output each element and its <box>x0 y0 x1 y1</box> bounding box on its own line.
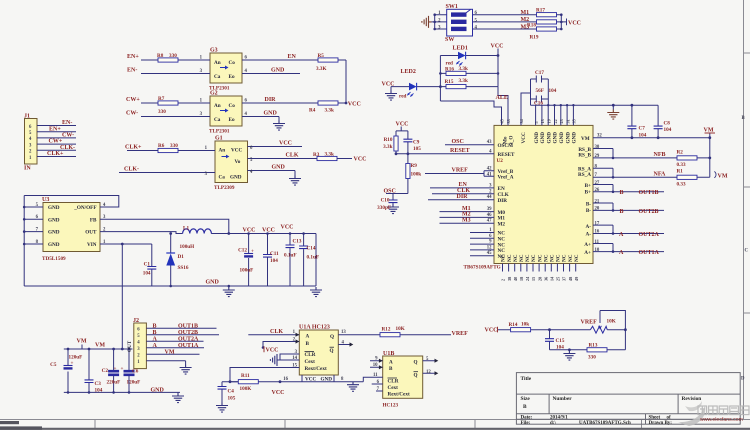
svg-text:R14: R14 <box>509 322 518 328</box>
svg-text:U1B: U1B <box>383 351 394 357</box>
svg-text:RS_B: RS_B <box>578 152 591 158</box>
svg-text:A: A <box>153 336 158 342</box>
svg-text:TLP2309: TLP2309 <box>214 185 235 191</box>
svg-text:GND: GND <box>321 377 333 383</box>
svg-text:M3: M3 <box>462 217 471 223</box>
svg-text:B: B <box>306 341 310 347</box>
svg-text:GND: GND <box>565 132 571 144</box>
svg-text:Ca: Ca <box>214 117 221 123</box>
svg-text:GND: GND <box>540 132 546 144</box>
svg-text:DIR: DIR <box>498 198 508 204</box>
svg-text:20: 20 <box>595 207 600 212</box>
svg-text:A+: A+ <box>584 242 591 248</box>
svg-text:12: 12 <box>426 370 431 375</box>
svg-text:An: An <box>214 60 221 66</box>
svg-text:17: 17 <box>595 221 600 226</box>
svg-text:C7: C7 <box>639 126 646 132</box>
svg-text:OUT2A: OUT2A <box>178 336 199 342</box>
svg-text:R1: R1 <box>677 169 684 175</box>
svg-text:45: 45 <box>499 119 504 123</box>
svg-text:Size: Size <box>521 396 531 402</box>
svg-text:EN-: EN- <box>62 120 72 126</box>
svg-text:330pF: 330pF <box>377 205 391 211</box>
svg-text:B-: B- <box>586 208 591 214</box>
svg-text:C12: C12 <box>238 248 247 254</box>
svg-text:OUT2A: OUT2A <box>639 232 660 238</box>
svg-text:Eo: Eo <box>229 117 235 123</box>
svg-text:C16: C16 <box>534 101 543 107</box>
svg-text:Date:: Date: <box>521 416 533 421</box>
svg-text:VCC: VCC <box>305 377 316 383</box>
svg-text:FB: FB <box>90 217 97 223</box>
svg-text:10K: 10K <box>396 326 405 332</box>
svg-text:10K: 10K <box>607 319 616 325</box>
svg-text:R8: R8 <box>157 53 164 59</box>
svg-text:VCC: VCC <box>485 328 498 334</box>
svg-text:VCC: VCC <box>279 141 292 147</box>
svg-text:35: 35 <box>572 119 577 123</box>
svg-text:29: 29 <box>595 154 600 159</box>
svg-text:Q: Q <box>414 373 418 379</box>
svg-text:VREF: VREF <box>581 320 598 326</box>
svg-text:2014/9/1: 2014/9/1 <box>550 416 568 421</box>
svg-text:VCC: VCC <box>568 21 581 27</box>
svg-text:23: 23 <box>559 119 564 123</box>
svg-text:Revision: Revision <box>682 396 702 402</box>
svg-text:NC: NC <box>525 254 531 262</box>
svg-text:3.3k: 3.3k <box>459 78 468 84</box>
svg-text:VREF: VREF <box>452 331 469 337</box>
svg-text:B+: B+ <box>585 190 591 196</box>
svg-text:B: B <box>620 209 624 215</box>
svg-text:220uF: 220uF <box>107 380 121 386</box>
svg-text:CW+: CW+ <box>49 139 63 145</box>
svg-text:OUT1A: OUT1A <box>639 250 660 256</box>
svg-text:D: D <box>741 377 745 382</box>
svg-text:U2: U2 <box>497 158 504 164</box>
svg-text:NC: NC <box>543 254 549 262</box>
svg-text:GND: GND <box>230 175 242 181</box>
svg-text:A-: A- <box>586 224 592 230</box>
svg-text:Ca: Ca <box>214 74 221 80</box>
svg-text:CLK+: CLK+ <box>125 145 142 151</box>
svg-text:C5: C5 <box>50 362 57 368</box>
svg-text:_ON/OFF: _ON/OFF <box>73 205 96 211</box>
svg-text:A+: A+ <box>584 250 591 256</box>
svg-text:Sheet: Sheet <box>649 416 661 421</box>
svg-text:M2: M2 <box>498 221 506 227</box>
svg-text:Vref_A: Vref_A <box>498 175 514 181</box>
svg-text:Co: Co <box>229 60 236 66</box>
svg-text:330: 330 <box>588 355 596 361</box>
svg-text:VM: VM <box>77 339 87 345</box>
svg-text:45: 45 <box>487 251 492 256</box>
svg-text:28: 28 <box>537 277 542 281</box>
svg-text:10: 10 <box>373 363 378 368</box>
svg-text:EN: EN <box>288 54 297 60</box>
svg-text:3.3k: 3.3k <box>459 66 468 72</box>
svg-text:Rext/Cext: Rext/Cext <box>388 392 410 398</box>
svg-text:A: A <box>153 343 158 349</box>
svg-text:EN+: EN+ <box>127 54 139 60</box>
svg-text:VCC: VCC <box>281 225 294 231</box>
svg-text:NC: NC <box>531 254 537 262</box>
svg-text:t_O: t_O <box>509 136 515 144</box>
svg-text:NC: NC <box>568 254 574 262</box>
svg-text:104: 104 <box>143 271 151 277</box>
svg-text:27: 27 <box>595 181 600 186</box>
svg-text:R18: R18 <box>527 23 536 29</box>
svg-text:D1: D1 <box>178 254 185 260</box>
svg-text:16: 16 <box>283 377 288 382</box>
svg-text:R11: R11 <box>241 373 250 379</box>
svg-text:NC: NC <box>519 254 525 262</box>
svg-text:EN+: EN+ <box>49 126 61 132</box>
svg-text:CW-: CW- <box>126 111 138 117</box>
svg-text:6: 6 <box>475 11 478 16</box>
svg-text:of: of <box>667 416 672 421</box>
svg-text:C4: C4 <box>228 389 235 395</box>
svg-text:www.elecfans.com: www.elecfans.com <box>700 417 743 423</box>
svg-text:32: 32 <box>597 133 602 138</box>
svg-text:L1: L1 <box>183 226 189 232</box>
svg-text:J1: J1 <box>24 114 30 120</box>
svg-text:A: A <box>619 250 624 256</box>
svg-text:VM: VM <box>165 349 175 355</box>
svg-text:CLK: CLK <box>270 329 283 335</box>
svg-text:R17: R17 <box>536 7 545 13</box>
svg-text:GND: GND <box>48 230 60 236</box>
svg-text:NC: NC <box>507 254 513 262</box>
svg-text:16: 16 <box>595 230 600 235</box>
svg-text:G3: G3 <box>210 48 218 54</box>
svg-text:CW+: CW+ <box>126 97 140 103</box>
svg-text:GND: GND <box>559 132 565 144</box>
svg-text:36: 36 <box>543 277 548 281</box>
svg-text:NC: NC <box>574 254 580 262</box>
svg-text:CLK-: CLK- <box>60 145 75 151</box>
svg-text:105: 105 <box>228 396 236 402</box>
svg-text:GND: GND <box>264 111 278 117</box>
svg-text:Ca: Ca <box>219 175 226 181</box>
svg-text:OSC: OSC <box>384 188 396 194</box>
svg-text:C17: C17 <box>535 70 544 76</box>
svg-text:Co: Co <box>229 103 236 109</box>
svg-text:3.3k: 3.3k <box>325 108 334 114</box>
svg-text:11: 11 <box>595 240 600 245</box>
svg-text:B: B <box>523 404 527 410</box>
svg-text:SS16: SS16 <box>178 265 189 271</box>
svg-text:330: 330 <box>158 109 166 115</box>
svg-text:2: 2 <box>438 18 441 23</box>
svg-text:41: 41 <box>487 173 492 178</box>
svg-text:104: 104 <box>664 127 672 133</box>
svg-text:13: 13 <box>341 330 346 335</box>
svg-text:R10: R10 <box>384 137 393 143</box>
svg-text:An: An <box>214 103 221 109</box>
svg-text:R13: R13 <box>589 343 598 349</box>
svg-text:VCC: VCC <box>354 157 367 163</box>
svg-text:13: 13 <box>540 119 545 123</box>
svg-text:VIN: VIN <box>87 242 97 248</box>
svg-text:C9: C9 <box>413 140 420 146</box>
svg-text:OSC: OSC <box>452 139 464 145</box>
svg-text:R2: R2 <box>677 149 684 155</box>
svg-text:49: 49 <box>574 277 579 281</box>
svg-text:C13: C13 <box>293 239 302 245</box>
svg-text:C6: C6 <box>132 369 139 375</box>
svg-text:GND: GND <box>546 132 552 144</box>
svg-text:NC: NC <box>556 254 562 262</box>
svg-text:VCC: VCC <box>348 101 361 107</box>
svg-text:5: 5 <box>475 18 478 23</box>
svg-text:8: 8 <box>341 377 344 382</box>
svg-text:R16: R16 <box>445 66 454 72</box>
svg-text:3.3k: 3.3k <box>325 152 334 158</box>
svg-text:A: A <box>306 334 310 340</box>
svg-text:C14: C14 <box>307 246 316 252</box>
svg-text:EN-: EN- <box>127 68 137 74</box>
svg-text:104: 104 <box>639 133 647 139</box>
svg-text:104: 104 <box>95 388 103 394</box>
svg-text:3: 3 <box>438 26 441 31</box>
svg-text:GND: GND <box>271 68 285 74</box>
svg-text:44: 44 <box>487 195 492 200</box>
svg-text:5: 5 <box>534 121 539 123</box>
svg-text:Q: Q <box>330 334 334 340</box>
svg-text:d:\: d:\ <box>550 421 556 426</box>
svg-text:Q: Q <box>330 348 334 354</box>
svg-text:VM: VM <box>95 343 105 349</box>
svg-text:R9: R9 <box>411 163 418 169</box>
svg-text:NC: NC <box>537 254 543 262</box>
svg-text:Vo: Vo <box>235 159 241 165</box>
svg-text:10: 10 <box>595 248 600 253</box>
svg-text:R7: R7 <box>158 96 165 102</box>
svg-text:C: C <box>745 249 749 254</box>
svg-text:47: 47 <box>487 219 492 224</box>
svg-text:GND: GND <box>206 280 220 286</box>
svg-text:RS_A: RS_A <box>578 172 591 178</box>
svg-text:C3: C3 <box>95 381 102 387</box>
svg-text:Cext: Cext <box>388 385 399 391</box>
svg-text:104: 104 <box>549 88 557 94</box>
svg-text:red: red <box>399 94 407 100</box>
svg-text:OUT: OUT <box>85 230 97 236</box>
svg-text:Rext/Cext: Rext/Cext <box>305 366 327 372</box>
svg-text:CLK-: CLK- <box>124 167 139 173</box>
svg-text:Drawn By:: Drawn By: <box>649 421 673 426</box>
svg-text:Number: Number <box>553 396 573 402</box>
svg-text:TD5L1509: TD5L1509 <box>42 256 66 262</box>
svg-text:VCC: VCC <box>266 348 279 354</box>
svg-text:CW-: CW- <box>62 133 74 139</box>
svg-text:+: + <box>114 366 117 372</box>
svg-text:CLK+: CLK+ <box>47 151 64 157</box>
svg-text:C2: C2 <box>102 368 109 374</box>
svg-text:1: 1 <box>438 11 441 16</box>
svg-text:DIR: DIR <box>265 97 277 103</box>
svg-text:VM: VM <box>581 136 590 142</box>
svg-text:R12: R12 <box>382 326 391 332</box>
svg-text:VM: VM <box>718 174 728 180</box>
svg-text:U1A HC123: U1A HC123 <box>299 325 330 331</box>
svg-text:TB67S109AFTG: TB67S109AFTG <box>464 264 501 270</box>
svg-text:RESET: RESET <box>450 148 470 154</box>
svg-text:104: 104 <box>556 345 564 351</box>
svg-text:330: 330 <box>170 143 178 149</box>
svg-text:VCC: VCC <box>396 121 409 127</box>
svg-text:2: 2 <box>501 279 506 281</box>
svg-text:R19: R19 <box>530 35 539 41</box>
svg-text:R4: R4 <box>309 108 316 114</box>
svg-text:R6: R6 <box>158 143 165 149</box>
svg-text:GND: GND <box>553 132 559 144</box>
svg-text:Title: Title <box>521 376 532 382</box>
svg-text:43: 43 <box>487 140 492 145</box>
svg-text:B: B <box>153 323 157 329</box>
svg-text:0.33: 0.33 <box>677 181 686 187</box>
svg-text:UATB67S109AFTG.Sch: UATB67S109AFTG.Sch <box>579 421 631 426</box>
svg-text:OUT1B: OUT1B <box>178 323 198 329</box>
svg-text:38: 38 <box>507 277 512 281</box>
svg-text:SW1: SW1 <box>446 4 458 10</box>
svg-text:GND: GND <box>572 132 578 144</box>
svg-text:26: 26 <box>595 188 600 193</box>
svg-text:Cext: Cext <box>305 359 316 365</box>
svg-text:C1: C1 <box>144 262 151 268</box>
svg-text:19: 19 <box>547 119 552 123</box>
svg-text:M1: M1 <box>521 10 530 16</box>
svg-text:NFA: NFA <box>654 172 667 178</box>
svg-text:SW: SW <box>445 37 454 43</box>
svg-text:+: + <box>121 366 124 372</box>
svg-text:B: B <box>742 116 746 121</box>
svg-text:DIR: DIR <box>457 194 469 200</box>
svg-text:105: 105 <box>413 146 421 152</box>
svg-text:100K: 100K <box>240 386 252 392</box>
svg-text:12: 12 <box>487 245 492 250</box>
svg-text:GND: GND <box>534 132 540 144</box>
svg-text:GND: GND <box>48 217 60 223</box>
svg-text:15: 15 <box>292 364 297 369</box>
svg-text:B: B <box>153 330 157 336</box>
svg-text:OUT2B: OUT2B <box>639 209 659 215</box>
svg-text:VCC: VCC <box>243 228 256 234</box>
svg-text:B+: B+ <box>585 183 591 189</box>
svg-text:GND: GND <box>48 205 60 211</box>
svg-text:HC123: HC123 <box>383 403 399 409</box>
svg-text:14: 14 <box>550 276 555 281</box>
svg-text:120uF: 120uF <box>127 380 141 386</box>
svg-text:B: B <box>620 190 624 196</box>
svg-text:VCC: VCC <box>272 390 285 396</box>
svg-text:3.3K: 3.3K <box>316 66 327 72</box>
svg-text:B: B <box>389 366 393 372</box>
svg-text:NFB: NFB <box>654 152 666 158</box>
svg-text:0.1uF: 0.1uF <box>284 253 297 259</box>
svg-text:OUT1A: OUT1A <box>178 343 199 349</box>
svg-text:NC: NC <box>550 254 556 262</box>
svg-text:3.3k: 3.3k <box>383 144 392 150</box>
svg-text:A-: A- <box>586 232 592 238</box>
svg-text:33: 33 <box>506 119 511 123</box>
svg-text:40: 40 <box>513 277 518 281</box>
svg-text:VCC: VCC <box>262 228 275 234</box>
svg-text:R5: R5 <box>318 53 325 59</box>
svg-text:100k: 100k <box>411 172 422 178</box>
svg-text:15: 15 <box>531 277 536 281</box>
svg-text:31: 31 <box>565 119 570 123</box>
svg-text:0.33: 0.33 <box>677 162 686 168</box>
svg-text:File:: File: <box>521 421 531 426</box>
svg-text:30: 30 <box>595 145 600 150</box>
svg-text:OUT: OUT <box>127 340 133 352</box>
svg-text:Q: Q <box>414 360 418 366</box>
svg-text:GND: GND <box>48 242 60 248</box>
svg-text:G2: G2 <box>210 91 218 97</box>
svg-text:CLR: CLR <box>305 352 316 358</box>
svg-text:NC: NC <box>513 254 519 262</box>
svg-text:Eo: Eo <box>229 74 235 80</box>
svg-text:LED2: LED2 <box>401 69 416 75</box>
svg-text:0.1uF: 0.1uF <box>307 255 320 261</box>
svg-text:42: 42 <box>487 167 492 172</box>
svg-text:B-: B- <box>586 202 591 208</box>
svg-text:10k: 10k <box>521 322 529 328</box>
svg-text:A: A <box>619 232 624 238</box>
svg-text:NC: NC <box>562 254 568 262</box>
svg-text:R15: R15 <box>445 79 454 85</box>
svg-text:OUT1B: OUT1B <box>639 190 659 196</box>
svg-text:C8: C8 <box>664 121 671 127</box>
svg-text:R3: R3 <box>313 152 320 158</box>
svg-text:VCC: VCC <box>491 44 504 50</box>
svg-text:24: 24 <box>525 276 530 281</box>
svg-text:An: An <box>219 148 226 154</box>
svg-text:22: 22 <box>553 119 558 123</box>
svg-text:104: 104 <box>270 258 278 264</box>
svg-text:37: 37 <box>562 277 567 281</box>
svg-text:TLP2301: TLP2301 <box>209 129 230 135</box>
svg-text:C11: C11 <box>270 251 279 257</box>
svg-text:VREF: VREF <box>452 168 469 174</box>
svg-text:VCC: VCC <box>521 132 527 143</box>
svg-text:IN: IN <box>24 166 31 172</box>
svg-text:G1: G1 <box>215 136 223 142</box>
svg-text:U3: U3 <box>42 197 49 203</box>
svg-text:100uF: 100uF <box>240 268 254 274</box>
svg-text:56F: 56F <box>536 88 544 94</box>
svg-text:CLR: CLR <box>388 379 399 385</box>
svg-text:+: + <box>71 361 74 367</box>
svg-text:CLK: CLK <box>286 153 299 159</box>
svg-text:100uH: 100uH <box>180 244 195 250</box>
svg-text:48: 48 <box>568 277 573 281</box>
svg-text:GND: GND <box>272 165 286 171</box>
svg-text:VCC: VCC <box>231 148 242 154</box>
svg-text:+: + <box>251 249 254 255</box>
svg-text:GND: GND <box>151 387 165 393</box>
svg-text:ALE: ALE <box>496 95 508 101</box>
svg-text:18: 18 <box>519 277 524 281</box>
svg-text:A: A <box>389 360 393 366</box>
svg-text:4: 4 <box>475 26 478 31</box>
svg-text:25: 25 <box>556 277 561 281</box>
svg-text:VCC: VCC <box>382 81 395 87</box>
svg-text:NC: NC <box>501 254 507 262</box>
svg-text:330: 330 <box>169 53 177 59</box>
